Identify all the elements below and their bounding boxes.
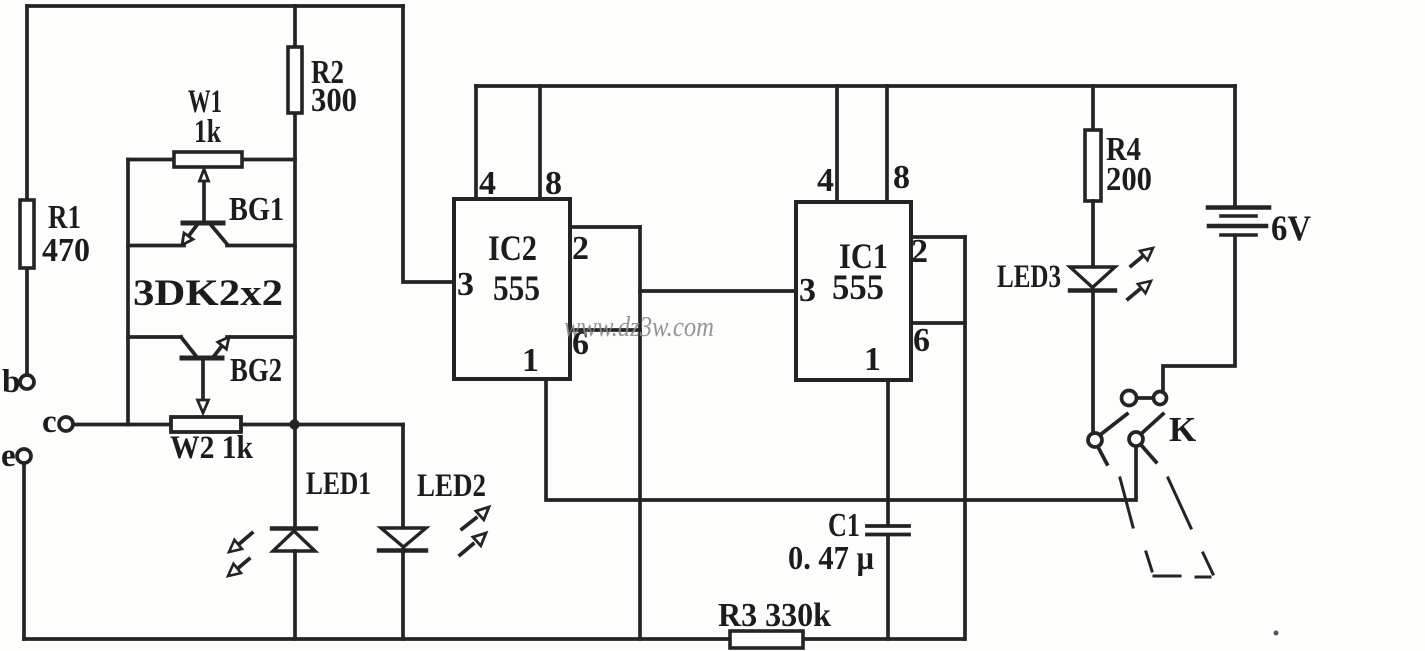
LED3 emission arrows [1131,256,1143,266]
svg-text:1: 1 [522,342,539,379]
wire IC2 pin 6 stub [570,328,640,332]
svg-text:4: 4 [817,162,834,199]
wire top supply bus [476,84,1235,88]
svg-text:R3 330k: R3 330k [718,597,831,634]
wire left branch (R1 branch vertical) [25,6,29,375]
switch K dashed linkage [1120,478,1133,527]
wire IC2 pin 8 [538,86,542,199]
terminal c [59,417,73,431]
svg-text:LED1: LED1 [306,466,371,502]
svg-text:470: 470 [42,232,90,269]
battery BT 6V [1233,86,1237,205]
svg-text:3: 3 [457,266,474,303]
switch K [1122,391,1137,406]
svg-text:LED3: LED3 [997,259,1061,295]
svg-text:6V: 6V [1271,208,1311,248]
op-amp/timer U-IC2 (555) box [454,199,570,379]
wire R4 to LED3 [1091,201,1095,267]
wire IC1 pin 4 [835,86,839,202]
LED D1 (LED1) [272,526,316,530]
svg-text:BG1: BG1 [229,191,284,228]
svg-text:2: 2 [572,230,589,267]
resistor R2 [288,47,302,113]
svg-text:3: 3 [799,272,816,309]
wire IC1 pin 2 stub [911,235,965,239]
capacitor C1 [867,524,909,528]
wire top-left bus [27,4,403,8]
wire terminal c to W2 [73,423,171,427]
wire IC2 output node to IC1 pin 3 [640,289,796,293]
op-amp/timer U-IC1 (555) box [796,202,911,380]
svg-text:8: 8 [893,159,910,196]
resistor R3 [730,631,803,648]
svg-text:4: 4 [479,165,496,202]
svg-text:R1: R1 [48,199,81,236]
wire left inner vertical [126,160,130,425]
wire e branch down [22,463,26,639]
svg-text:W2 1k: W2 1k [170,430,254,466]
wire IC2 pin 1 to switch (signal rail) [546,379,1136,500]
wire IC1 pins 2/6 vertical to bottom rail [963,237,967,639]
wire IC2 pin 2 stub [570,225,640,229]
svg-text:e: e [1,438,16,474]
svg-text:LED2: LED2 [417,468,486,504]
wire bottom rail [24,637,964,641]
svg-text:1k: 1k [194,114,221,150]
wire BG1 emitter to left vertical [128,244,184,248]
wire IC1 pin 6 stub [911,321,965,325]
LED D3 (LED3) [1070,267,1115,288]
terminal e [17,449,31,463]
BG2 wiper arrow down [201,358,205,399]
terminal b [20,375,34,389]
svg-text:555: 555 [493,268,540,308]
resistor R4 [1085,130,1101,201]
svg-text:1: 1 [864,341,881,378]
svg-text:c: c [42,404,57,440]
svg-text:300: 300 [311,82,357,119]
svg-text:C1: C1 [828,507,860,544]
svg-text:3DK2x2: 3DK2x2 [133,273,283,314]
wire W2 node to LED2 branch [295,423,403,427]
wire BG2 emitter to R2 branch [227,335,295,339]
svg-text:www.dz3w.com: www.dz3w.com [564,312,714,343]
wire LED2 branch vertical [401,425,405,529]
wire IC1 pin 1 down [886,380,890,524]
potentiometer W2 [171,417,241,432]
svg-text:6: 6 [913,322,930,359]
wire IC2 pins 2/6 vertical to bottom rail [638,227,642,639]
wire BG1 collector to R2 branch [227,244,295,248]
svg-text:2: 2 [911,233,928,270]
transistor BG2 [128,335,181,339]
wire top bus to IC2 pin3 [403,6,454,282]
ink speck [1274,631,1279,636]
svg-text:K: K [1169,410,1196,449]
svg-text:8: 8 [545,165,562,202]
wire IC1 pin 8 [885,86,889,202]
wire IC2 pin 4 [474,86,478,199]
LED D2 (LED2) [381,528,426,547]
transistor BG1 [183,221,223,226]
svg-text:555: 555 [832,267,884,307]
LED2 emission arrows [462,518,476,529]
svg-text:BG2: BG2 [230,352,282,389]
resistor R1 [20,200,34,268]
svg-text:b: b [2,364,20,400]
potentiometer W1 [128,158,174,162]
node junction dot (W2 / LED1 branch) [289,419,299,429]
wire R4 branch top [1091,86,1095,130]
W1 wiper arrow [202,181,206,222]
LED1 emission arrows [238,533,252,545]
svg-text:IC2: IC2 [488,228,537,268]
svg-text:200: 200 [1106,161,1152,198]
wire R2 / LED branch vertical [293,6,297,527]
svg-text:0. 47 µ: 0. 47 µ [788,540,874,577]
